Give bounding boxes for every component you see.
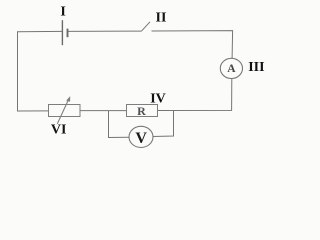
svg-text:I: I [60,5,65,20]
svg-text:R: R [137,104,146,118]
svg-text:II: II [156,11,167,26]
svg-text:III: III [248,60,264,75]
svg-text:A: A [227,63,236,75]
svg-text:VI: VI [51,123,67,138]
svg-text:IV: IV [150,92,166,107]
svg-text:V: V [135,130,147,147]
